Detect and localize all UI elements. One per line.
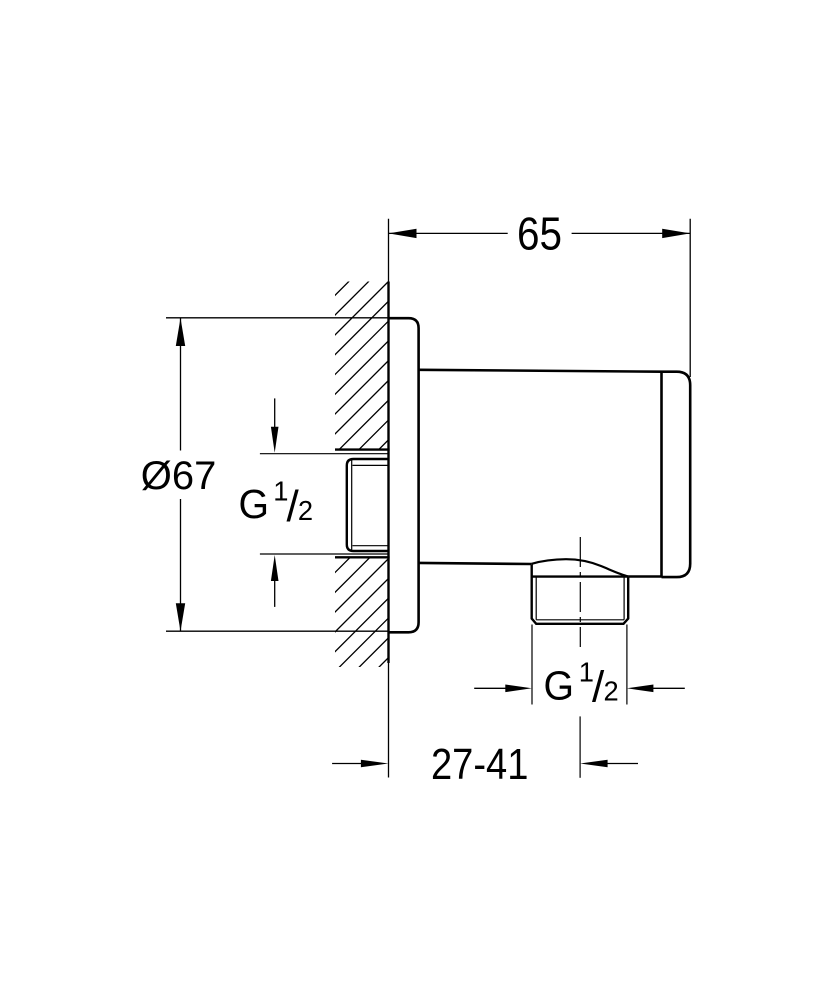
wall surface thick segment (387, 282, 389, 664)
svg-text:65: 65 (517, 207, 562, 259)
inlet G1/2: lower arrowhead (271, 555, 279, 581)
svg-text:2: 2 (298, 495, 313, 526)
outlet nipple thread inner lines (536, 578, 624, 620)
body cylinder bottom edge (419, 563, 532, 564)
outlet G1/2: right tail line (653, 687, 685, 689)
inlet socket G1/2 (wall side) (347, 459, 389, 551)
dimension Ø67: dimension line (180, 318, 182, 631)
end cap outline (662, 372, 691, 577)
inlet G1/2: upper arrow shaft (274, 398, 276, 428)
outlet fillet curve (532, 559, 629, 576)
dimension Ø67: top extension line (166, 317, 389, 319)
outlet G1/2: left extension line (531, 625, 533, 705)
inlet socket inner thread lines (352, 460, 389, 551)
wall hole upper edge (335, 448, 390, 450)
outlet G1/2: left arrowhead (505, 685, 532, 693)
dimension 27-41: right arrowhead (580, 760, 608, 768)
dimension 65: left arrowhead (389, 229, 417, 238)
dimension Ø67: top arrowhead (176, 318, 185, 346)
svg-text:G: G (544, 662, 575, 708)
dimension 65: right extension line (689, 219, 691, 377)
svg-text:Ø67: Ø67 (141, 454, 217, 498)
wall hole lower edge (335, 556, 390, 558)
dimension Ø67: bottom arrowhead (176, 603, 185, 631)
outlet G1/2: right extension line (626, 625, 628, 705)
inlet G1/2: lower arrow shaft (274, 580, 276, 607)
dimension 27-41: left tail line (332, 763, 361, 765)
outlet G1/2: left tail line (474, 687, 506, 689)
flange (wall rosette) (388, 318, 418, 632)
svg-text:G: G (239, 481, 270, 527)
inlet G1/2: upper arrowhead (271, 427, 279, 453)
body cylinder top edge (419, 370, 662, 372)
centerline extension below (for 27-41) (579, 716, 581, 777)
wall surface line (388, 219, 390, 778)
end cap inner line (660, 372, 663, 577)
dimension 27-41: left arrowhead (361, 760, 389, 768)
outlet G1/2: right arrowhead (627, 685, 654, 693)
centerline outlet (dash-dot) (579, 537, 581, 647)
dimension 65: dimension line (389, 232, 691, 234)
inlet G1/2: upper extension line (260, 453, 389, 455)
svg-text:27-41: 27-41 (431, 741, 528, 789)
inlet G1/2: lower extension line (260, 553, 389, 555)
dimension 27-41: right tail line (607, 763, 638, 765)
dimension Ø67: bottom extension line (166, 630, 389, 632)
dimension 65: right arrowhead (662, 229, 690, 238)
outlet nipple G1/2 (532, 565, 629, 624)
outlet shoulder line to cap (628, 575, 661, 577)
svg-text:2: 2 (604, 676, 619, 707)
